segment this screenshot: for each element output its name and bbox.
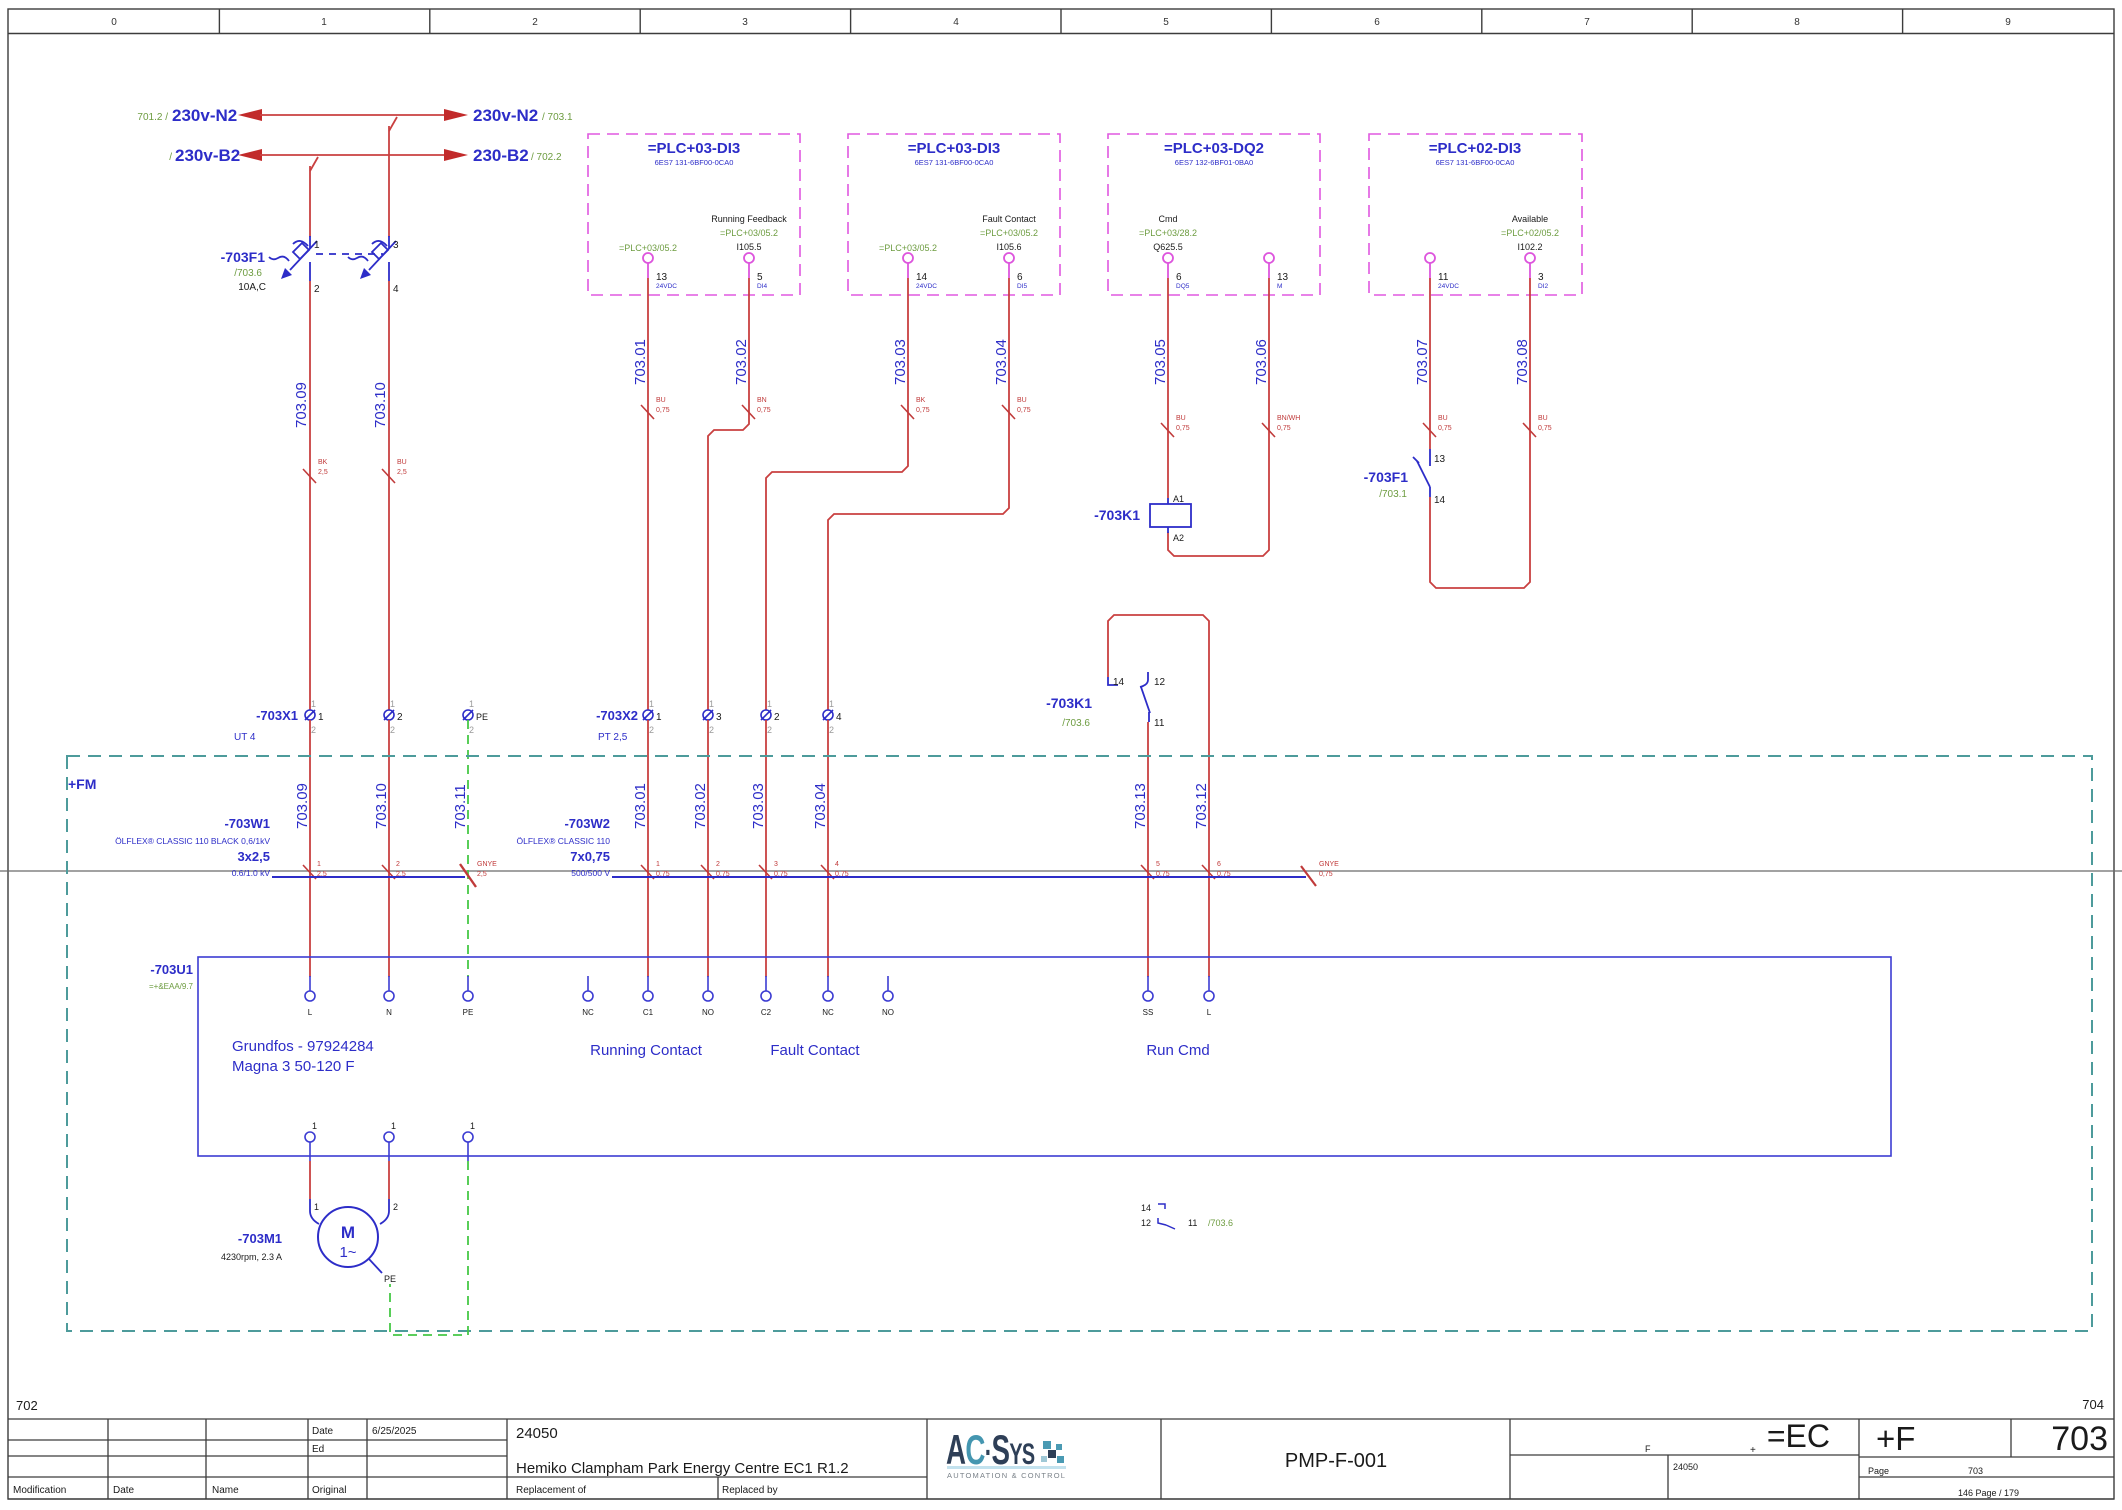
- svg-text:230v-B2: 230v-B2: [175, 146, 240, 165]
- svg-text:13: 13: [656, 272, 668, 283]
- svg-text:ÖLFLEX® CLASSIC 110: ÖLFLEX® CLASSIC 110: [516, 836, 610, 846]
- svg-text:C1: C1: [643, 1008, 654, 1017]
- svg-text:A2: A2: [1173, 533, 1184, 543]
- svg-text:2,5: 2,5: [397, 469, 407, 476]
- PLC4 pin 3 (DI2) Available: [1501, 214, 1559, 290]
- U1 pin NO2 (unconnected): [882, 976, 894, 1017]
- motor PE pin: [369, 1259, 396, 1284]
- svg-text:703.03: 703.03: [892, 339, 909, 385]
- svg-text:703.12: 703.12: [1193, 783, 1210, 829]
- wire 703.12 down to U1: [1193, 710, 1231, 977]
- svg-text:703.13: 703.13: [1132, 783, 1149, 829]
- svg-text:8: 8: [1794, 17, 1800, 28]
- svg-text:4: 4: [953, 17, 959, 28]
- svg-text:NC: NC: [582, 1008, 594, 1017]
- svg-text:4: 4: [836, 712, 842, 723]
- svg-text:=PLC+03/28.2: =PLC+03/28.2: [1139, 228, 1197, 238]
- relay coil -703K1: [1094, 494, 1191, 543]
- svg-text:Page: Page: [1868, 1466, 1889, 1476]
- svg-text:5: 5: [1163, 17, 1169, 28]
- svg-text:PMP-F-001: PMP-F-001: [1285, 1450, 1387, 1472]
- svg-text:7x0,75: 7x0,75: [570, 849, 610, 864]
- cable -703W1 line: [272, 876, 465, 878]
- svg-text:Cmd: Cmd: [1158, 214, 1177, 224]
- wires 703.01-703.04 lower segments: [632, 720, 670, 977]
- svg-text:14: 14: [1113, 677, 1125, 688]
- svg-text:9: 9: [2005, 17, 2011, 28]
- svg-text:DI5: DI5: [1017, 283, 1028, 290]
- svg-text:0,75: 0,75: [1438, 425, 1452, 432]
- svg-text:SS: SS: [1143, 1008, 1154, 1017]
- svg-text:1: 1: [469, 699, 474, 709]
- svg-text:F: F: [1645, 1444, 1651, 1454]
- svg-text:11: 11: [1154, 718, 1165, 729]
- svg-text:703.10: 703.10: [372, 382, 389, 428]
- svg-text:Replacement of: Replacement of: [516, 1485, 586, 1496]
- title block small labels: [13, 1426, 778, 1496]
- U1 pin N: [384, 976, 394, 1017]
- svg-text:24050: 24050: [516, 1425, 558, 1442]
- U1 pin C1: [643, 976, 654, 1017]
- svg-text:703.05: 703.05: [1152, 339, 1169, 385]
- wire drop from B2 rail to breaker pole 1: [310, 157, 318, 237]
- svg-text:24VDC: 24VDC: [656, 283, 677, 290]
- svg-text:+FM: +FM: [68, 776, 96, 792]
- svg-text:500/500 V: 500/500 V: [571, 868, 610, 878]
- svg-text:1: 1: [709, 699, 714, 709]
- svg-text:3x2,5: 3x2,5: [237, 849, 270, 864]
- svg-text:PE: PE: [476, 712, 488, 722]
- aux contact -703F1 (13-14): [1364, 449, 1446, 506]
- PLC3 pin 6 (DQ5) Cmd: [1139, 214, 1197, 290]
- svg-text:2: 2: [393, 1202, 398, 1212]
- svg-text:BN/WH: BN/WH: [1277, 415, 1300, 422]
- terminal -703X1:PE: [463, 699, 488, 735]
- svg-text:1: 1: [470, 1121, 475, 1131]
- svg-text:24VDC: 24VDC: [916, 283, 937, 290]
- terminal -703X1:2: [384, 699, 403, 735]
- svg-text:703: 703: [2051, 1420, 2108, 1458]
- svg-text:11: 11: [1438, 272, 1449, 283]
- svg-text:Date: Date: [113, 1485, 135, 1496]
- svg-text:Available: Available: [1512, 214, 1548, 224]
- svg-text:2: 2: [311, 725, 316, 735]
- svg-text:0,75: 0,75: [1017, 407, 1031, 414]
- svg-text:3: 3: [742, 17, 748, 28]
- PLC4 pin 11 (24VDC): [1425, 253, 1459, 290]
- svg-text:6ES7 131-6BF00-0CA0: 6ES7 131-6BF00-0CA0: [1436, 158, 1515, 167]
- wire U1 to motor pin 2: [380, 1161, 398, 1224]
- svg-text:703.11: 703.11: [452, 784, 469, 829]
- PLC box =PLC+02-DI3 (U-box 4): [1369, 134, 1582, 295]
- wire 703.10 upper segment: [372, 281, 407, 710]
- wire 703.09 upper segment: [293, 281, 328, 710]
- svg-text:6ES7 132-6BF01-0BA0: 6ES7 132-6BF01-0BA0: [1175, 158, 1253, 167]
- svg-text:BK: BK: [318, 459, 328, 466]
- wire 703.07 to aux contact: [1414, 278, 1452, 449]
- svg-text:2: 2: [390, 725, 395, 735]
- svg-text:703.04: 703.04: [812, 783, 829, 829]
- breaker -703F1 labels: [221, 249, 266, 293]
- svg-text:1: 1: [312, 1121, 317, 1131]
- U1 pin L: [305, 976, 315, 1017]
- svg-text:AUTOMATION & CONTROL: AUTOMATION & CONTROL: [947, 1471, 1066, 1480]
- svg-text:Modification: Modification: [13, 1485, 66, 1496]
- svg-text:1: 1: [317, 861, 321, 868]
- svg-text:/703.6: /703.6: [1208, 1218, 1233, 1228]
- svg-text:14: 14: [916, 272, 928, 283]
- cable W2 GNYE spare tick: [1301, 861, 1339, 886]
- +FM mounting location box: [67, 756, 2092, 1331]
- svg-text:L: L: [308, 1008, 313, 1017]
- svg-text:Fault Contact: Fault Contact: [770, 1042, 860, 1059]
- svg-text:10A,C: 10A,C: [238, 282, 266, 293]
- svg-text:2: 2: [716, 861, 720, 868]
- svg-text:M: M: [341, 1223, 355, 1242]
- svg-text:7: 7: [1584, 17, 1590, 28]
- svg-text:6: 6: [1374, 17, 1380, 28]
- svg-text:701.2 /: 701.2 /: [137, 112, 168, 123]
- svg-text:=EC: =EC: [1767, 1418, 1830, 1454]
- svg-text:2: 2: [314, 284, 320, 295]
- svg-text:/703.1: /703.1: [1379, 489, 1407, 500]
- svg-text:704: 704: [2082, 1397, 2104, 1412]
- K1 contact cross-reference mirror: [1141, 1203, 1233, 1229]
- PLC2 pin 6 (DI5) Fault Contact: [980, 214, 1038, 290]
- svg-text:12: 12: [1141, 1218, 1151, 1228]
- svg-text:1: 1: [767, 699, 772, 709]
- svg-text:-703K1: -703K1: [1094, 507, 1140, 523]
- terminal -703X2:2: [761, 699, 780, 735]
- svg-text:703.09: 703.09: [294, 783, 311, 829]
- svg-text:3: 3: [1538, 272, 1544, 283]
- svg-text:-703F1: -703F1: [221, 249, 266, 265]
- wire 703.01: [632, 278, 670, 710]
- U1 pin C2: [761, 976, 772, 1017]
- svg-text:A1: A1: [1173, 494, 1184, 504]
- svg-text:5: 5: [757, 272, 763, 283]
- U1 pin NC (unconnected): [582, 976, 594, 1017]
- breaker -703F1 pole 3-4: [348, 236, 396, 281]
- svg-text:=PLC+02-DI3: =PLC+02-DI3: [1429, 140, 1522, 157]
- svg-text:703.06: 703.06: [1253, 339, 1270, 385]
- wire 703.04 (jog 1009 to 828): [828, 278, 1031, 710]
- svg-text:Running Contact: Running Contact: [590, 1042, 703, 1059]
- svg-text:1: 1: [314, 1202, 319, 1212]
- svg-text:Replaced by: Replaced by: [722, 1485, 778, 1496]
- svg-text:1: 1: [656, 861, 660, 868]
- frame row divider line: [0, 870, 2122, 872]
- svg-text:=PLC+03-DQ2: =PLC+03-DQ2: [1164, 140, 1264, 157]
- svg-text:BU: BU: [1538, 415, 1548, 422]
- wire 703.03 lower: [750, 720, 788, 977]
- svg-text:1: 1: [649, 699, 654, 709]
- svg-text:I105.6: I105.6: [996, 242, 1021, 252]
- svg-text:I102.2: I102.2: [1517, 242, 1542, 252]
- svg-text:-703W2: -703W2: [564, 816, 610, 831]
- svg-text:Grundfos - 97924284: Grundfos - 97924284: [232, 1038, 374, 1055]
- wire 703.05 to relay coil: [1152, 278, 1190, 498]
- svg-text:146 Page / 179: 146 Page / 179: [1958, 1488, 2019, 1498]
- svg-text:703.02: 703.02: [733, 339, 750, 385]
- wire loop to K1 contact (703.12 top): [1108, 615, 1209, 710]
- svg-text:13: 13: [1277, 272, 1289, 283]
- terminal strip -703X2 label: [596, 708, 638, 743]
- svg-text:24050: 24050: [1673, 1462, 1698, 1472]
- K1 changeover contact -703K1 (14/12/11): [1046, 672, 1165, 729]
- svg-text:4: 4: [393, 284, 399, 295]
- svg-text:703.02: 703.02: [692, 783, 709, 829]
- svg-text:13: 13: [1434, 454, 1446, 465]
- svg-text:6: 6: [1217, 861, 1221, 868]
- title block grid: [8, 1419, 2114, 1499]
- U1 pin SS: [1143, 976, 1154, 1017]
- svg-text:DI4: DI4: [757, 283, 768, 290]
- wire 703.04 lower: [812, 720, 849, 977]
- terminal -703X2:4: [823, 699, 842, 735]
- PLC box =PLC+03-DI3 (U-box 2): [848, 134, 1060, 295]
- svg-text:Run Cmd: Run Cmd: [1146, 1042, 1209, 1059]
- terminal -703X1:1: [305, 699, 324, 735]
- PLC3 pin 13 (M): [1264, 253, 1289, 290]
- svg-text:2: 2: [709, 725, 714, 735]
- AC-Sys logo: [946, 1426, 1066, 1480]
- svg-text:230v-N2: 230v-N2: [473, 106, 538, 125]
- svg-text:0: 0: [111, 17, 117, 28]
- svg-text:14: 14: [1141, 1203, 1151, 1213]
- svg-text:-703X2: -703X2: [596, 708, 638, 723]
- svg-text:Original: Original: [312, 1485, 346, 1496]
- svg-text:2: 2: [649, 725, 654, 735]
- wire drop from N2 rail to breaker pole 3: [389, 117, 397, 237]
- PLC box =PLC+03-DQ2 (U-box 3): [1108, 134, 1320, 295]
- svg-text:=PLC+03/05.2: =PLC+03/05.2: [980, 228, 1038, 238]
- svg-text:0,75: 0,75: [916, 407, 930, 414]
- svg-text:/ 702.2: / 702.2: [531, 152, 562, 163]
- cable -703W2 labels: [516, 816, 610, 878]
- svg-text:NO: NO: [702, 1008, 714, 1017]
- svg-text:703.10: 703.10: [373, 783, 390, 829]
- svg-text:703.07: 703.07: [1414, 339, 1431, 385]
- svg-text:703.03: 703.03: [750, 783, 767, 829]
- svg-text:6/25/2025: 6/25/2025: [372, 1426, 417, 1437]
- svg-text:BK: BK: [916, 397, 926, 404]
- PLC1 pin 5 (DI4) Running Feedback: [711, 214, 787, 290]
- svg-text:2: 2: [397, 712, 403, 723]
- svg-text:/ 703.1: / 703.1: [542, 112, 573, 123]
- svg-text:0,75: 0,75: [1277, 425, 1291, 432]
- svg-text:+: +: [1750, 1445, 1756, 1456]
- svg-text:Hemiko Clampham Park Energy Ce: Hemiko Clampham Park Energy Centre EC1 R…: [516, 1460, 849, 1477]
- potential arrow 230v-N2 right: [444, 106, 573, 125]
- potential arrow 230v-B2 left: [169, 146, 262, 165]
- svg-text:3: 3: [774, 861, 778, 868]
- svg-text:NC: NC: [822, 1008, 834, 1017]
- svg-text:3: 3: [393, 240, 399, 251]
- svg-text:0.6/1.0 kV: 0.6/1.0 kV: [232, 868, 271, 878]
- cable -703W2 line: [612, 876, 1306, 878]
- svg-text:=PLC+03-DI3: =PLC+03-DI3: [648, 140, 741, 157]
- svg-text:Fault Contact: Fault Contact: [982, 214, 1036, 224]
- svg-text:1: 1: [318, 712, 324, 723]
- svg-text:Name: Name: [212, 1485, 239, 1496]
- PE green dashed wire to motor: [390, 1161, 468, 1335]
- svg-text:0,75: 0,75: [656, 407, 670, 414]
- svg-text:5: 5: [1156, 861, 1160, 868]
- svg-text:/703.6: /703.6: [1062, 718, 1090, 729]
- svg-text:N: N: [386, 1008, 392, 1017]
- svg-text:-703X1: -703X1: [256, 708, 298, 723]
- svg-text:BU: BU: [1017, 397, 1027, 404]
- svg-text:6ES7 131-6BF00-0CA0: 6ES7 131-6BF00-0CA0: [915, 158, 994, 167]
- cable -703W1 labels: [115, 816, 270, 878]
- device -703U1 box: [149, 957, 1891, 1156]
- svg-text:1: 1: [656, 712, 662, 723]
- svg-text:=PLC+03-DI3: =PLC+03-DI3: [908, 140, 1001, 157]
- svg-text:703.09: 703.09: [293, 382, 310, 428]
- wire 703.08 aux contact return: [1430, 278, 1552, 588]
- wire 230v-B2 rail: [260, 154, 446, 156]
- svg-text:0,75: 0,75: [757, 407, 771, 414]
- svg-text:Date: Date: [312, 1426, 334, 1437]
- svg-text:ÖLFLEX® CLASSIC 110 BLACK 0,6/: ÖLFLEX® CLASSIC 110 BLACK 0,6/1kV: [115, 836, 270, 846]
- svg-text:2: 2: [532, 17, 538, 28]
- svg-text:-703M1: -703M1: [238, 1231, 282, 1246]
- wire 703.02 lower: [692, 720, 730, 977]
- U1 device texts: [232, 1038, 1210, 1075]
- svg-text:2,5: 2,5: [318, 469, 328, 476]
- U1 pin NO: [702, 976, 714, 1017]
- potential arrow 230-B2 right: [444, 146, 562, 165]
- U1 bottom pin 1 (N): [384, 1121, 396, 1161]
- svg-text:+F: +F: [1876, 1420, 1915, 1457]
- PLC2 pin 14 (24VDC): [879, 243, 937, 290]
- svg-text:230-B2: 230-B2: [473, 146, 529, 165]
- svg-text:-703K1: -703K1: [1046, 695, 1092, 711]
- svg-text:703: 703: [1968, 1466, 1983, 1476]
- terminal -703X2:1: [643, 699, 662, 735]
- svg-text:1~: 1~: [339, 1244, 356, 1261]
- wire 230v-N2 rail: [260, 114, 446, 116]
- svg-text:=+&EAA/9.7: =+&EAA/9.7: [149, 982, 194, 991]
- terminal -703X2:3: [703, 699, 722, 735]
- svg-text:Running Feedback: Running Feedback: [711, 214, 787, 224]
- PLC1 pin 13 (24VDC): [619, 243, 677, 290]
- svg-text:2: 2: [767, 725, 772, 735]
- svg-text:-703W1: -703W1: [224, 816, 270, 831]
- frame column ruler ticks: [219, 9, 1902, 34]
- svg-text:703.08: 703.08: [1514, 339, 1531, 385]
- svg-text:DI2: DI2: [1538, 283, 1549, 290]
- svg-text:L: L: [1207, 1008, 1212, 1017]
- svg-text:PE: PE: [463, 1008, 474, 1017]
- svg-text:703.01: 703.01: [632, 339, 649, 385]
- U1 pin L run: [1204, 976, 1214, 1017]
- svg-text:2,5: 2,5: [477, 871, 487, 878]
- svg-text:2: 2: [829, 725, 834, 735]
- svg-text:702: 702: [16, 1398, 38, 1413]
- svg-text:C2: C2: [761, 1008, 772, 1017]
- svg-text:PT 2,5: PT 2,5: [598, 732, 628, 743]
- svg-text:BN: BN: [757, 397, 767, 404]
- wire 703.10 lower: [373, 720, 406, 977]
- wire 703.11 PE green dashed upper: [452, 720, 497, 977]
- svg-text:1: 1: [311, 699, 316, 709]
- wire 703.13 from contact 11 down: [1132, 722, 1170, 977]
- breaker mechanical coupling dashed: [316, 253, 383, 255]
- svg-text:11: 11: [1188, 1218, 1197, 1228]
- breaker -703F1 pole 1-2: [269, 236, 317, 281]
- svg-text:=PLC+03/05.2: =PLC+03/05.2: [879, 243, 937, 253]
- svg-text:12: 12: [1154, 677, 1166, 688]
- svg-text:1: 1: [321, 17, 327, 28]
- svg-text:2: 2: [774, 712, 780, 723]
- svg-text:230v-N2: 230v-N2: [172, 106, 237, 125]
- svg-text:0,75: 0,75: [1319, 871, 1333, 878]
- svg-text:6ES7 131-6BF00-0CA0: 6ES7 131-6BF00-0CA0: [655, 158, 734, 167]
- svg-text:BU: BU: [397, 459, 407, 466]
- U1 bottom pin 1 (PE): [463, 1121, 475, 1161]
- svg-text:BU: BU: [656, 397, 666, 404]
- svg-text:3: 3: [716, 712, 722, 723]
- svg-text:703.01: 703.01: [632, 783, 649, 829]
- svg-text:M: M: [1277, 283, 1282, 290]
- svg-text:BU: BU: [1438, 415, 1448, 422]
- wire 703.02 (jog 749 to 708): [708, 278, 771, 710]
- svg-text:=PLC+03/05.2: =PLC+03/05.2: [619, 243, 677, 253]
- wire 703.06 coil return: [1168, 278, 1300, 556]
- svg-text:/703.6: /703.6: [234, 268, 262, 279]
- svg-text:1: 1: [390, 699, 395, 709]
- svg-text:Ed: Ed: [312, 1444, 324, 1455]
- svg-text:0,75: 0,75: [1538, 425, 1552, 432]
- PLC box =PLC+03-DI3 (U-box 1): [588, 134, 800, 295]
- svg-text:14: 14: [1434, 495, 1446, 506]
- U1 pin PE: [463, 976, 474, 1017]
- svg-text:703.04: 703.04: [993, 339, 1010, 385]
- svg-text:2: 2: [469, 725, 474, 735]
- svg-text:DQ5: DQ5: [1176, 283, 1190, 290]
- svg-text:1: 1: [829, 699, 834, 709]
- potential arrow 230v-N2 left (node 230v-N2): [137, 106, 262, 125]
- wires from terminals down into +FM (703.09/703.10 lower): [294, 720, 327, 977]
- motor -703M1: [221, 1207, 378, 1267]
- svg-text:0,75: 0,75: [1176, 425, 1190, 432]
- svg-text:Q625.5: Q625.5: [1153, 242, 1183, 252]
- svg-text:/: /: [169, 152, 172, 163]
- svg-text:=PLC+03/05.2: =PLC+03/05.2: [720, 228, 778, 238]
- svg-text:=PLC+02/05.2: =PLC+02/05.2: [1501, 228, 1559, 238]
- svg-text:GNYE: GNYE: [477, 861, 497, 868]
- svg-text:BU: BU: [1176, 415, 1186, 422]
- svg-text:-703F1: -703F1: [1364, 469, 1409, 485]
- svg-text:PE: PE: [384, 1274, 396, 1284]
- svg-text:24VDC: 24VDC: [1438, 283, 1459, 290]
- frame column numbers: [111, 17, 2011, 28]
- svg-text:1: 1: [314, 240, 320, 251]
- svg-text:NO: NO: [882, 1008, 894, 1017]
- svg-text:UT 4: UT 4: [234, 732, 256, 743]
- svg-text:GNYE: GNYE: [1319, 861, 1339, 868]
- svg-text:4230rpm, 2.3 A: 4230rpm, 2.3 A: [221, 1252, 282, 1262]
- terminal strip -703X1 label: [234, 708, 298, 743]
- svg-text:1: 1: [391, 1121, 396, 1131]
- U1 bottom pin 1 (L): [305, 1121, 317, 1161]
- wire U1 to motor pin 1: [310, 1161, 319, 1224]
- svg-text:2: 2: [396, 861, 400, 868]
- svg-text:4: 4: [835, 861, 839, 868]
- svg-text:6: 6: [1176, 272, 1182, 283]
